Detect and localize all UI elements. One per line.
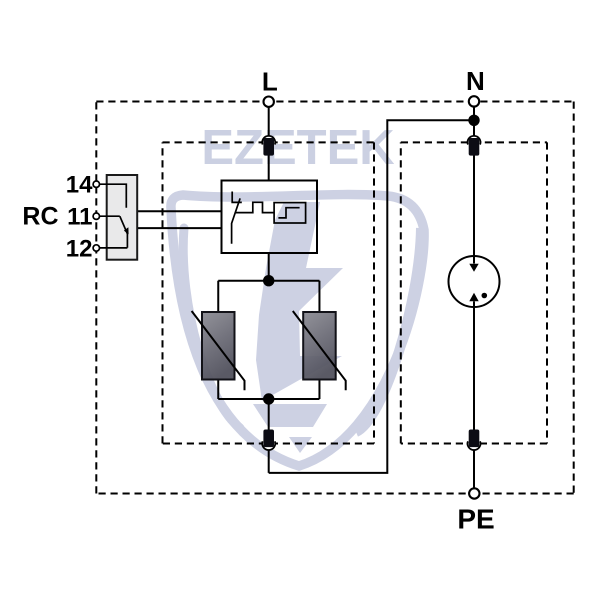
wire link varistor output to N node bbox=[269, 120, 474, 473]
svg-text:14: 14 bbox=[66, 172, 93, 199]
wire L terminal down to monitoring box bbox=[268, 102, 270, 181]
wire remote contact 11 lead bbox=[100, 215, 120, 217]
terminal block N input bbox=[469, 138, 480, 156]
terminal circle 11 bbox=[93, 213, 99, 219]
svg-text:EZETEK: EZETEK bbox=[201, 121, 394, 175]
wire monitoring box to varistor bus bbox=[268, 253, 270, 281]
watermark: EZETEK logo shield bbox=[171, 121, 424, 466]
blade arrowhead barb bbox=[124, 227, 129, 234]
GDT dot bbox=[482, 293, 488, 299]
wire right varistor top stem bbox=[318, 281, 320, 312]
monitoring / disconnector box U1 bbox=[222, 181, 318, 254]
watermark shield outline bbox=[171, 195, 424, 466]
wire remote contact 14 lead bbox=[100, 184, 127, 208]
wire remote contact 12 lead bbox=[100, 247, 128, 249]
terminal block L output bbox=[263, 430, 274, 448]
terminal block PE output bbox=[469, 430, 480, 448]
wire N terminal down to gas discharge tube bbox=[473, 101, 475, 263]
watermark shield left side inner accent bbox=[183, 228, 240, 428]
signal output box with step symbol bbox=[274, 203, 306, 223]
svg-text:L: L bbox=[262, 67, 278, 97]
watermark lightning bolt upper body bbox=[256, 202, 343, 401]
terminal circle N bbox=[469, 96, 479, 106]
svg-text:N: N bbox=[466, 66, 485, 96]
junction node varistor bottom bbox=[263, 393, 274, 404]
svg-text:12: 12 bbox=[66, 235, 93, 262]
watermark shield right side inner accent bbox=[356, 228, 421, 432]
gas discharge tube F1 bbox=[449, 256, 500, 307]
remote signalling contact box RC bbox=[100, 175, 138, 260]
wire left varistor top stem bbox=[217, 281, 219, 312]
watermark lightning bolt lower band bbox=[253, 404, 327, 427]
thermal disconnector switch inside monitor box bbox=[232, 192, 242, 203]
wire RC box to monitor box upper bbox=[137, 210, 221, 212]
svg-text:11: 11 bbox=[67, 204, 92, 231]
terminal circle 14 bbox=[93, 181, 99, 187]
svg-text:PE: PE bbox=[457, 504, 494, 535]
pulse waveform symbol bbox=[235, 202, 274, 212]
terminal block L input bbox=[263, 138, 274, 156]
wire gas discharge tube to PE terminal bbox=[473, 301, 475, 493]
inner dashed box left (L protection module) bbox=[163, 142, 375, 443]
terminal circle L bbox=[264, 97, 274, 107]
wire bottom junction down through L output terminal bbox=[268, 399, 270, 473]
terminal clamp dome L output bbox=[262, 441, 275, 450]
terminal circle PE bbox=[469, 488, 479, 498]
watermark lightning bolt tip bbox=[289, 437, 312, 453]
inner dashed box right (N-PE protection module) bbox=[401, 142, 547, 443]
terminal circle 12 bbox=[93, 245, 99, 251]
changeover contact blade inside RC box bbox=[120, 216, 128, 248]
terminal clamp dome N input bbox=[468, 136, 481, 145]
GDT upper electrode arrow bbox=[469, 264, 478, 272]
junction node N bbox=[468, 115, 479, 126]
wire RC box to monitor box lower bbox=[137, 227, 221, 229]
GDT lower electrode arrow bbox=[469, 293, 478, 302]
terminal clamp dome L input bbox=[262, 136, 275, 145]
svg-text:RC: RC bbox=[22, 203, 58, 231]
outer dashed enclosure bbox=[96, 102, 573, 494]
terminal clamp dome PE output bbox=[468, 441, 481, 450]
wire right varistor bottom stem bbox=[318, 380, 320, 400]
wire left varistor bottom stem bbox=[217, 380, 219, 400]
wire varistor top bus bbox=[218, 280, 319, 282]
varistor RV1 (left) bbox=[192, 311, 245, 390]
varistor RV2 (right) bbox=[293, 311, 346, 390]
junction node varistor top bbox=[263, 275, 274, 286]
wire varistor bottom bus bbox=[218, 398, 319, 400]
